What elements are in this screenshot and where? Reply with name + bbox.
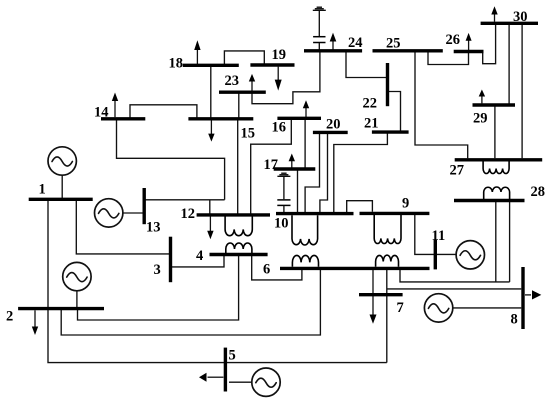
wire 23-15 — [238, 94, 240, 118]
load arrow bus 7 — [370, 270, 377, 324]
svg-text:19: 19 — [272, 47, 287, 63]
bus 13 — [142, 188, 145, 224]
generator G11 (bus 11) — [456, 241, 484, 269]
svg-text:30: 30 — [513, 9, 528, 25]
svg-text:6: 6 — [263, 262, 270, 278]
wire cap 24 stem upper — [318, 11, 320, 36]
wire 3-4 — [172, 256, 224, 267]
generator G2 (bus 2) — [63, 262, 91, 290]
wire 9-11 — [415, 215, 434, 255]
wire 6-8 — [387, 288, 521, 290]
load arrow bus 30 — [491, 6, 497, 21]
bus 17 — [274, 167, 316, 170]
load arrow bus 12 — [207, 217, 213, 240]
wire 18-19 — [224, 51, 264, 64]
wire cap 10 stem lower — [283, 206, 285, 213]
wire cap 24 stem lower — [318, 43, 320, 50]
generator G13 (bus 13) — [95, 199, 123, 227]
bus 14 — [101, 117, 145, 120]
bus 24 — [304, 49, 362, 52]
bus 27 — [455, 158, 543, 161]
load arrow bus 24 — [330, 33, 337, 50]
svg-text:23: 23 — [225, 73, 240, 89]
wire 16-17 — [304, 120, 306, 168]
svg-text:26: 26 — [446, 32, 461, 48]
bus 18 — [183, 64, 239, 67]
svg-text:4: 4 — [196, 248, 203, 264]
wire 9-10 — [347, 201, 373, 213]
wire 16-12 — [251, 120, 292, 214]
bus 15 — [188, 117, 253, 120]
load arrow bus 17 — [289, 154, 295, 168]
wire 6-28 — [400, 270, 510, 282]
svg-text:21: 21 — [364, 116, 379, 132]
wire 6-7 — [386, 270, 388, 363]
load arrow bus 15 — [208, 120, 214, 141]
wire 15-12 — [237, 120, 239, 214]
wire 23-24 — [252, 52, 320, 104]
load arrow bus 16 — [303, 100, 309, 117]
svg-text:20: 20 — [326, 117, 341, 133]
wire 1-3 — [76, 201, 169, 254]
wire 10-17 — [297, 170, 299, 212]
svg-text:7: 7 — [397, 300, 404, 316]
transformer 6-10 — [292, 215, 319, 266]
svg-text:29: 29 — [473, 111, 488, 127]
bus 9 — [360, 212, 430, 215]
load arrow bus 2 — [32, 310, 38, 335]
bus 21 — [372, 130, 409, 133]
bus 29 — [473, 103, 516, 106]
load arrow bus 29 — [479, 90, 485, 104]
wire G11 stem — [437, 253, 456, 255]
wire G1 stem — [61, 175, 63, 198]
svg-text:11: 11 — [432, 228, 446, 244]
bus 19 — [250, 63, 294, 66]
bus 5 — [224, 348, 227, 392]
ground bus 10 shunt — [277, 173, 290, 176]
bus 30 — [481, 22, 538, 25]
wire 28 drop b — [509, 202, 511, 282]
svg-text:8: 8 — [511, 312, 518, 328]
transformer 12-4 — [225, 216, 252, 253]
bus 3 — [169, 237, 172, 283]
bus 22 — [386, 63, 389, 106]
bus 7 — [359, 293, 403, 296]
svg-text:5: 5 — [229, 348, 236, 364]
wire 29-30 — [508, 25, 510, 104]
wire 12-14 riser — [117, 120, 225, 214]
wire 22-24 — [346, 52, 387, 78]
bus 11 — [434, 240, 437, 270]
svg-text:27: 27 — [450, 163, 465, 179]
svg-text:13: 13 — [146, 220, 161, 236]
wire 27-29 — [494, 107, 496, 159]
wire 1-2 — [47, 201, 49, 308]
load arrow bus 19 — [275, 67, 282, 91]
wire 10-20a — [305, 134, 319, 213]
svg-text:12: 12 — [181, 206, 196, 222]
svg-text:16: 16 — [272, 120, 287, 136]
wire 2-5 — [48, 310, 225, 363]
svg-text:15: 15 — [241, 126, 256, 142]
generator G8 (bus 8) — [424, 294, 452, 322]
bus 6 — [280, 267, 430, 270]
transformer 27-28 — [483, 161, 510, 200]
wire 10-21 — [334, 134, 388, 213]
load arrow bus 14 — [112, 93, 118, 118]
svg-text:28: 28 — [531, 184, 546, 200]
wire 2-4 — [78, 256, 239, 321]
bus 2 — [18, 307, 104, 310]
load arrow bus 8 — [525, 290, 541, 299]
wire 2-6 — [61, 269, 320, 336]
svg-text:1: 1 — [39, 182, 46, 198]
svg-text:25: 25 — [386, 36, 401, 52]
wire 14-15 — [130, 105, 197, 118]
wire G13 stem — [123, 212, 143, 214]
svg-text:22: 22 — [363, 96, 378, 112]
load arrow bus 5 — [199, 373, 223, 382]
generator G1 (bus 1) — [48, 147, 76, 175]
bus 1 — [29, 198, 93, 201]
bus 10 — [276, 212, 354, 215]
load arrow bus 23 — [249, 74, 255, 91]
wire 26-30 — [483, 25, 496, 64]
svg-text:24: 24 — [348, 35, 363, 51]
wire 21-22 — [389, 92, 401, 131]
bus 8 — [521, 267, 524, 329]
ground bus 24 shunt — [313, 7, 326, 10]
svg-text:14: 14 — [94, 105, 109, 121]
bus 20 — [313, 131, 348, 134]
bus 4 — [210, 253, 268, 256]
wire 25-27 — [415, 52, 468, 158]
svg-text:3: 3 — [154, 262, 161, 278]
wire G2 stem — [76, 291, 78, 308]
wire 18-15 — [210, 67, 212, 118]
wire G8 stem — [453, 307, 522, 309]
wire 27-30 — [521, 25, 523, 158]
wire 25-26 — [428, 52, 469, 64]
bus 23 — [219, 90, 266, 93]
wire cap 10 stem upper — [283, 177, 285, 199]
wire 28 drop a — [495, 202, 497, 282]
transformer 6-9 — [374, 215, 401, 267]
bus 16 — [277, 117, 321, 120]
capacitor C10 — [277, 200, 290, 206]
bus 25 — [373, 49, 443, 52]
bus 28 — [454, 199, 525, 202]
wire 10-20b — [320, 134, 328, 213]
load arrow bus 26 — [466, 33, 472, 50]
wire 13-12 — [146, 199, 225, 201]
generator G5 (bus 5) — [252, 368, 280, 396]
svg-text:9: 9 — [402, 196, 409, 212]
svg-text:10: 10 — [274, 216, 289, 232]
wire 4-6 — [252, 256, 302, 280]
wire 5-7 — [227, 362, 387, 364]
bus 12 — [197, 213, 270, 216]
svg-text:17: 17 — [264, 157, 279, 173]
load arrow bus 18 — [194, 40, 200, 64]
wire G5 stem — [229, 381, 252, 383]
svg-text:2: 2 — [6, 309, 13, 325]
svg-text:18: 18 — [169, 56, 184, 72]
bus 26 — [454, 50, 484, 53]
capacitor C24 — [313, 37, 325, 43]
